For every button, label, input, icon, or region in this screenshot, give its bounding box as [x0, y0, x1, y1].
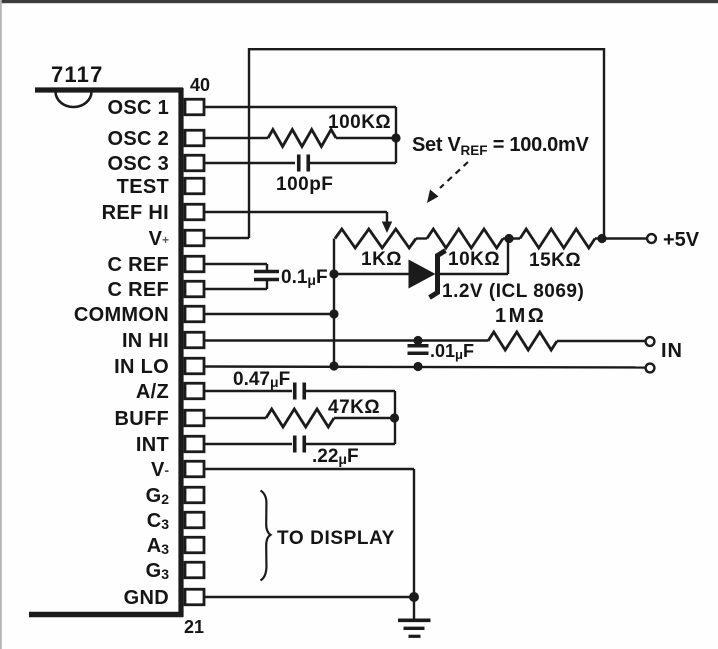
- resistor R5 1M zigzag: [488, 332, 557, 350]
- wire between 1K and 10K: [416, 237, 427, 239]
- svg-text:TEST: TEST: [117, 176, 169, 198]
- IC pin box IN LO row: [185, 358, 204, 374]
- brace TO DISPLAY: [261, 491, 271, 581]
- wire 1M to IN HI terminal: [557, 340, 646, 342]
- svg-text:21: 21: [184, 617, 204, 637]
- resistor R3 10K zigzag: [427, 229, 503, 248]
- svg-text:A/Z: A/Z: [136, 381, 169, 403]
- svg-text:GND: GND: [124, 587, 169, 609]
- wire cap to vertical: [308, 162, 396, 164]
- svg-text:1.2V (ICL 8069): 1.2V (ICL 8069): [442, 281, 584, 302]
- IC pin box GND row: [185, 589, 204, 605]
- svg-text:10KΩ: 10KΩ: [448, 249, 500, 270]
- wire loop top horizontal: [249, 48, 604, 50]
- svg-text:BUFF: BUFF: [114, 408, 169, 430]
- wire V- pin right: [204, 468, 414, 470]
- annotation dashed arrow line: [440, 162, 468, 188]
- svg-text:OSC 2: OSC 2: [107, 128, 169, 150]
- IC pin box OSC 1 row: [185, 99, 204, 115]
- zener diode D1 triangle: [409, 260, 436, 289]
- junction dot IN LO node: [329, 361, 338, 370]
- wire 15K to +5V terminal: [595, 237, 647, 239]
- wire A/Z pin to cap: [204, 390, 292, 392]
- svg-text:Set VREF = 100.0mV: Set VREF = 100.0mV: [412, 134, 589, 158]
- wire common vertical: [333, 239, 335, 367]
- IC pin box COMMON row: [185, 306, 204, 322]
- IC pin box OSC 2 row: [185, 130, 204, 146]
- zener diode D1 cathode bar: [430, 251, 446, 298]
- wire loop right vertical: [603, 48, 605, 239]
- wire C REF bottom pin: [204, 288, 267, 290]
- wire wiper vertical: [386, 212, 388, 224]
- wire OSC1 to vertical: [204, 106, 396, 108]
- IC pin-1 notch: [56, 92, 92, 107]
- svg-text:.22μF: .22μF: [312, 446, 359, 467]
- junction dot 15K/loop node: [597, 234, 606, 243]
- wire 47K to junction: [334, 417, 395, 419]
- wiper arrowhead: [382, 222, 392, 234]
- wire 10K to junction: [503, 237, 520, 239]
- svg-text:.01μF: .01μF: [430, 341, 474, 362]
- IC pin box IN HI row: [185, 332, 204, 348]
- resistor R6 47K zigzag: [266, 409, 334, 427]
- svg-text:V-: V-: [151, 459, 169, 481]
- svg-text:47KΩ: 47KΩ: [328, 397, 380, 418]
- wire INT cap to vertical: [304, 443, 395, 445]
- terminal IN LO circle: [646, 364, 655, 373]
- IC pin box INT row: [185, 436, 204, 452]
- svg-text:REF HI: REF HI: [102, 202, 169, 224]
- wire C REF top pin: [204, 263, 267, 265]
- junction dot zener line: [329, 269, 338, 278]
- capacitor C2 0.1uF plates: [254, 270, 279, 274]
- wire zener anode: [334, 273, 409, 275]
- potentiometer R2 1K zigzag: [335, 229, 416, 248]
- svg-text:1KΩ: 1KΩ: [361, 249, 402, 270]
- svg-text:7117: 7117: [51, 62, 104, 87]
- svg-text:C REF: C REF: [108, 279, 170, 301]
- wire OSC2 to resistor: [204, 137, 268, 139]
- svg-text:40: 40: [190, 75, 210, 95]
- IC pin box C REF row: [185, 256, 204, 272]
- svg-text:15KΩ: 15KΩ: [529, 250, 581, 271]
- svg-text:1MΩ: 1MΩ: [495, 305, 546, 327]
- wire INT pin to cap: [204, 443, 292, 445]
- IC pin box C3 row: [185, 512, 204, 528]
- wire V- vertical down: [413, 469, 415, 597]
- wire IN LO pin to terminal: [204, 367, 646, 368]
- junction dot IN HI cap top: [413, 336, 422, 345]
- wire OSC3 to cap: [204, 162, 295, 164]
- svg-text:OSC 1: OSC 1: [107, 97, 169, 119]
- svg-text:IN: IN: [661, 340, 683, 362]
- svg-text:100pF: 100pF: [276, 174, 333, 195]
- wire COMMON pin: [204, 313, 334, 315]
- IC pin box V+ row: [185, 230, 204, 246]
- junction dot IN LO cap bottom: [413, 362, 422, 371]
- terminal IN HI circle: [646, 337, 655, 346]
- terminal +5V circle: [647, 234, 656, 243]
- IC pin box V- row: [185, 461, 204, 477]
- junction dot OSC2/OSC1 node: [391, 133, 400, 142]
- resistor R1 100K zigzag: [268, 130, 336, 147]
- IC pin box G3 row: [185, 562, 204, 578]
- capacitor C3 .01uF plates: [408, 344, 429, 348]
- wire loop left vertical: [248, 48, 250, 238]
- svg-text:100KΩ: 100KΩ: [328, 112, 391, 133]
- svg-text:C REF: C REF: [108, 254, 170, 276]
- scan border top edge: [0, 0, 718, 3]
- wire IN HI cap to resistor: [418, 339, 488, 341]
- capacitor C5 .22uF: [293, 436, 297, 453]
- IC pin box TEST row: [185, 178, 204, 194]
- wire GND pin right: [204, 596, 414, 598]
- scan border left edge: [0, 0, 2, 649]
- junction dot GND node: [409, 592, 419, 602]
- capacitor C4 0.47uF: [293, 383, 297, 400]
- svg-text:0.1μF: 0.1μF: [281, 267, 328, 288]
- capacitor C1 100pF: [297, 155, 301, 172]
- IC pin box A3 row: [185, 537, 204, 553]
- svg-text:IN HI: IN HI: [122, 330, 169, 352]
- wire A/Z cap to vertical: [304, 390, 395, 392]
- IC pin box C REF row: [185, 281, 204, 297]
- IC pin box G2 row: [185, 487, 204, 503]
- IC pin box BUFF row: [185, 410, 204, 426]
- svg-text:TO DISPLAY: TO DISPLAY: [277, 528, 395, 549]
- svg-text:INT: INT: [136, 434, 169, 456]
- resistor R4 15K zigzag: [520, 229, 595, 248]
- junction dot BUFF node: [390, 413, 399, 422]
- wire zener cathode to node: [440, 273, 508, 275]
- IC U1 7117 body outline: [35, 87, 183, 92]
- svg-text:OSC 3: OSC 3: [107, 153, 169, 175]
- svg-text:+5V: +5V: [663, 229, 700, 251]
- junction dot 10K/15K/zener node: [504, 234, 513, 243]
- IC pin box REF HI row: [185, 204, 204, 220]
- wire BUFF pin to resistor: [204, 417, 266, 419]
- svg-text:0.47μF: 0.47μF: [233, 369, 290, 390]
- wire A/Z-INT vertical: [394, 391, 396, 444]
- junction dot COMMON node: [329, 309, 338, 318]
- wire IN HI pin to cap: [204, 339, 418, 341]
- svg-text:COMMON: COMMON: [74, 304, 169, 326]
- wire vertical OSC1 down to 100pF line: [395, 107, 397, 163]
- svg-text:IN LO: IN LO: [114, 356, 169, 378]
- annotation arrowhead: [427, 190, 439, 204]
- wire V+ pin to loop: [204, 237, 249, 239]
- IC pin box OSC 3 row: [185, 155, 204, 171]
- IC pin box A/Z row: [185, 383, 204, 399]
- wire resistor to junction: [336, 137, 396, 139]
- ground symbol: [413, 597, 415, 620]
- wire REF HI to wiper: [204, 211, 387, 213]
